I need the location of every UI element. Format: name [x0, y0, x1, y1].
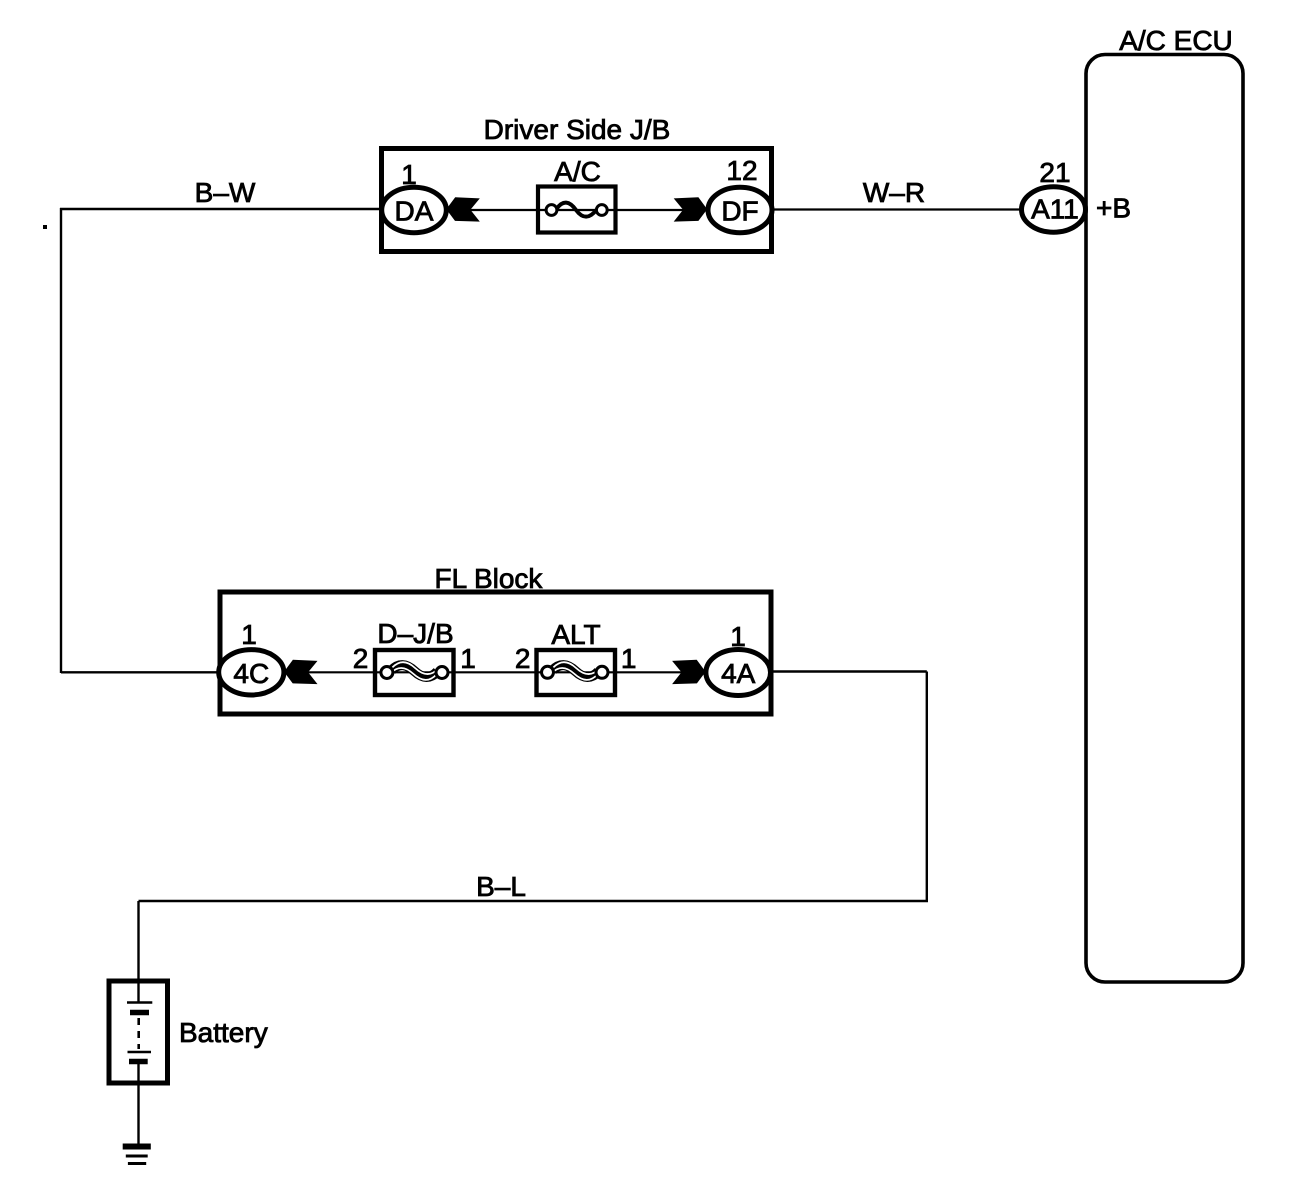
connector A11 pin 21 [1022, 187, 1086, 232]
svg-text:Driver Side J/B: Driver Side J/B [484, 114, 671, 145]
battery plate long bottom [128, 1051, 152, 1054]
fusible link ALT [537, 650, 616, 695]
fuse A/C [538, 187, 616, 233]
svg-text:DA: DA [395, 196, 434, 227]
svg-text:4A: 4A [721, 658, 756, 689]
svg-text:D–J/B: D–J/B [377, 618, 453, 649]
battery [109, 981, 168, 1083]
svg-text:W–R: W–R [863, 177, 925, 208]
wire inside FL Block [284, 671, 706, 673]
svg-text:2: 2 [353, 643, 369, 674]
svg-text:4C: 4C [233, 658, 269, 689]
connector DA pin 1 [382, 187, 447, 232]
svg-text:1: 1 [241, 619, 257, 650]
svg-text:ALT: ALT [551, 619, 600, 650]
svg-text:A11: A11 [1031, 194, 1079, 225]
wire W-R [772, 208, 1023, 210]
svg-text:1: 1 [621, 643, 637, 674]
svg-text:+B: +B [1096, 193, 1131, 224]
svg-text:1: 1 [401, 159, 417, 190]
svg-text:FL Block: FL Block [435, 563, 544, 594]
battery plate short thick bottom [129, 1059, 148, 1065]
svg-text:A/C: A/C [554, 156, 601, 187]
A/C ECU box [1086, 55, 1243, 983]
svg-text:A/C ECU: A/C ECU [1119, 25, 1233, 56]
svg-text:B–W: B–W [195, 177, 256, 208]
ground [123, 1144, 151, 1150]
junction block Driver Side J/B [382, 149, 772, 252]
connector 4A pin 1 [706, 650, 771, 696]
svg-text:B–L: B–L [476, 871, 526, 902]
battery plate short thick [130, 1010, 149, 1016]
svg-text:21: 21 [1039, 157, 1070, 188]
arrow into DF (right pointing) [674, 197, 708, 221]
svg-text:DF: DF [721, 196, 758, 227]
wire B-L horizontal [139, 900, 929, 902]
wire from left vertical to FL block [61, 671, 221, 673]
svg-text:1: 1 [730, 621, 746, 652]
wire from 4A to right vertical [771, 670, 927, 672]
wire battery bottom lead [137, 1062, 139, 1146]
wire battery top lead [137, 901, 139, 1003]
connector DF pin 12 [708, 187, 772, 232]
battery dashed center [137, 1018, 140, 1049]
wire inside Driver Side J/B [446, 209, 708, 211]
arrow into 4C (left pointing) [284, 660, 318, 684]
svg-text:1: 1 [460, 643, 476, 674]
wire right vertical [926, 672, 928, 902]
connector 4C pin 1 [219, 650, 284, 695]
wire B-W horizontal top-left [60, 208, 383, 210]
fusible link D-J/B [375, 650, 454, 695]
battery plate long top [127, 1001, 152, 1004]
svg-text:Battery: Battery [179, 1017, 268, 1048]
arrow into DA (left pointing) [446, 197, 480, 221]
wire left vertical [60, 208, 62, 673]
node speck [43, 225, 47, 229]
svg-text:12: 12 [726, 155, 757, 186]
fusible link block FL Block [220, 592, 771, 714]
svg-text:2: 2 [515, 643, 531, 674]
arrow into 4A (right pointing) [672, 660, 706, 684]
